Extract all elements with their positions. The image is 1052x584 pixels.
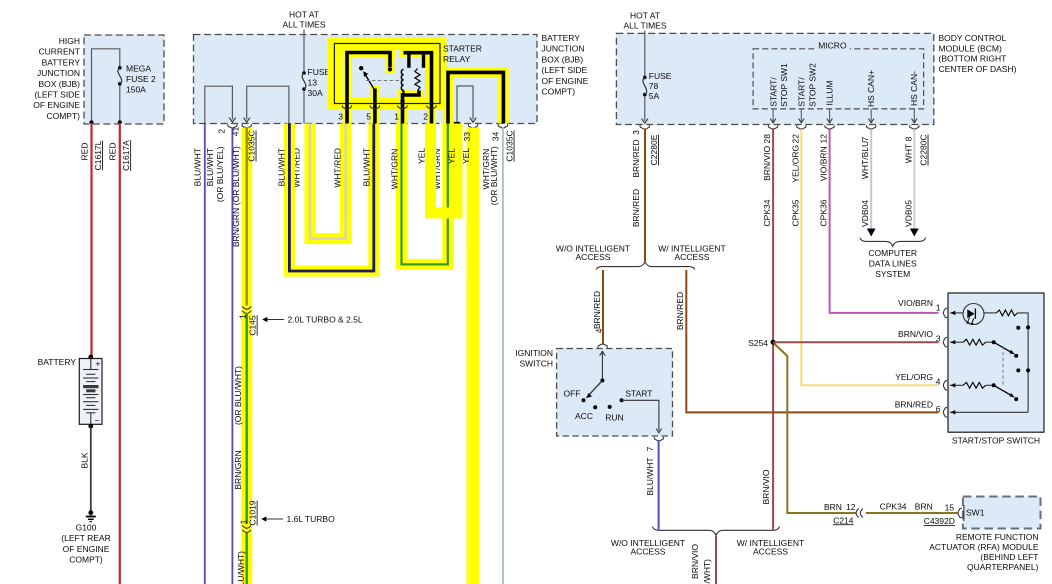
- svg-text:BLU/WHT: BLU/WHT: [645, 457, 655, 495]
- svg-text:3: 3: [936, 334, 941, 344]
- svg-text:MICRO: MICRO: [818, 40, 847, 50]
- ignition rotor arm: [588, 381, 603, 397]
- svg-text:OF ENGINE: OF ENGINE: [542, 76, 589, 86]
- svg-text:4: 4: [936, 377, 941, 387]
- svg-text:BATTERY: BATTERY: [42, 57, 81, 67]
- svg-text:C214: C214: [833, 515, 854, 525]
- svg-text:2.0L TURBO & 2.5L: 2.0L TURBO & 2.5L: [288, 314, 363, 324]
- svg-text:5: 5: [366, 112, 371, 122]
- svg-text:YEL: YEL: [461, 148, 471, 164]
- fuse 78 5A: [643, 76, 647, 80]
- switch resistor R2: [963, 339, 986, 345]
- svg-text:12: 12: [818, 134, 828, 144]
- wire BLU/WHT 7 ignition output: [658, 440, 660, 530]
- BJB internal loop from pin 41: [247, 86, 289, 123]
- ignition pivot dot: [600, 379, 604, 383]
- relay fixed contact dot: [388, 67, 392, 71]
- svg-text:3: 3: [338, 112, 343, 122]
- svg-text:(BEHIND LEFT: (BEHIND LEFT: [980, 552, 1038, 562]
- svg-text:BRN/RED: BRN/RED: [592, 291, 602, 329]
- wire BRN to RFA: [787, 355, 856, 513]
- svg-text:ACCESS: ACCESS: [631, 546, 666, 556]
- wire RED C1617L: [90, 123, 92, 356]
- svg-text:YEL/ORG: YEL/ORG: [895, 372, 933, 382]
- svg-text:HOT AT: HOT AT: [289, 10, 319, 20]
- wire BLU/WHT relay pin5 loop: [289, 124, 373, 272]
- svg-text:REMOTE FUNCTION: REMOTE FUNCTION: [956, 532, 1039, 542]
- BJB internal conductor to pin 34: [448, 72, 503, 123]
- svg-text:RELAY: RELAY: [443, 54, 471, 64]
- ignition OFF contact: [582, 398, 586, 402]
- svg-text:BLU/WHT: BLU/WHT: [361, 148, 371, 186]
- svg-text:12: 12: [846, 502, 856, 512]
- relay coil: [401, 69, 403, 90]
- wire BLK battery to ground: [90, 427, 92, 511]
- wire BRN/RED to ignition switch: [602, 270, 604, 345]
- svg-text:(LEFT REAR: (LEFT REAR: [61, 533, 110, 543]
- wire WHT/GRN (OR BLU/WHT) pin 34: [502, 128, 504, 584]
- svg-text:13: 13: [308, 77, 318, 87]
- svg-text:CENTER OF DASH): CENTER OF DASH): [939, 64, 1017, 74]
- ignition output cup: [654, 437, 663, 441]
- relay pin 5 conductor: [373, 89, 377, 125]
- start/stop switch outline: [948, 293, 1044, 432]
- starter relay highlight field: [328, 37, 447, 110]
- switch mechanical link: [1002, 346, 1004, 385]
- connector pin 33 cup: [468, 124, 477, 128]
- svg-text:BRN/VIO: BRN/VIO: [690, 544, 700, 579]
- micro pin stub x=773.1: [772, 109, 774, 122]
- svg-text:DATA LINES: DATA LINES: [869, 258, 917, 268]
- label battery junction box: [542, 33, 589, 97]
- svg-text:C2280C: C2280C: [919, 134, 929, 165]
- relay pin 3 conductor: [347, 53, 390, 125]
- BJB internal loop to pin 2: [205, 86, 233, 123]
- BJB internal bus wire: [92, 49, 120, 123]
- ignition START to output: [622, 400, 659, 430]
- svg-text:HOT AT: HOT AT: [630, 11, 660, 21]
- wire BLU/WHT (pin area left): [204, 124, 206, 584]
- svg-text:C1617A: C1617A: [121, 140, 131, 171]
- switch pin 4 cup: [943, 381, 947, 390]
- switch right rail: [1018, 313, 1029, 412]
- svg-text:33: 33: [462, 132, 472, 142]
- svg-text:BLK: BLK: [79, 452, 89, 468]
- label remote function actuator module: [929, 532, 1039, 572]
- svg-text:SYSTEM: SYSTEM: [875, 269, 910, 279]
- wire BRN/GRN pin 41: [245, 128, 247, 306]
- wire BRN/GRN mid: [245, 313, 247, 524]
- svg-text:BRN/VIO: BRN/VIO: [762, 146, 772, 181]
- connector C145: [242, 307, 251, 310]
- svg-text:S254: S254: [748, 338, 768, 348]
- wire BRN/GRN bottom: [245, 533, 247, 584]
- micro pin cup x=914.3: [910, 125, 919, 129]
- wire BRN/VIO from BCM pin 28: [772, 129, 774, 529]
- brace BRN/RED split: [596, 262, 695, 270]
- svg-text:22: 22: [790, 134, 800, 144]
- svg-text:(OR BLU/WHT): (OR BLU/WHT): [236, 551, 246, 584]
- svg-text:BLU/WHT: BLU/WHT: [205, 148, 215, 186]
- svg-text:BLU/WHT: BLU/WHT: [192, 148, 202, 186]
- high current battery junction box (BJB) outline: [84, 35, 164, 124]
- connector pin 2 cup: [228, 124, 237, 128]
- svg-text:BRN/VIO: BRN/VIO: [761, 469, 771, 504]
- switch contact pair 2: [1016, 368, 1020, 372]
- micro pin stub x=829.6: [829, 109, 831, 122]
- wire WHT/GRN relay pin1 loop: [402, 124, 448, 265]
- wire hot feed to fuse 78: [644, 31, 646, 78]
- wire WHT/RED fuse loop highlight: [310, 124, 346, 239]
- svg-text:30A: 30A: [308, 88, 323, 98]
- brace computer data lines: [860, 238, 926, 247]
- svg-text:SWITCH: SWITCH: [519, 359, 553, 369]
- svg-text:(OR BRN/WHT): (OR BRN/WHT): [702, 559, 712, 584]
- svg-text:5A: 5A: [649, 91, 660, 101]
- connector C214: [856, 509, 859, 518]
- starter relay box: [334, 44, 440, 104]
- relay mechanical link: [366, 80, 400, 82]
- wire BRN/VIO S254 to switch pin 3: [773, 341, 938, 343]
- ignition switch outline: [557, 349, 673, 437]
- junction dot left: [89, 120, 93, 124]
- svg-text:BRN/RED: BRN/RED: [631, 189, 641, 227]
- BCM pin 3 cup: [640, 125, 649, 129]
- svg-text:BRN/GRN: BRN/GRN: [231, 208, 241, 247]
- wire hot feed to fuse 13: [303, 30, 305, 74]
- svg-text:C1035C: C1035C: [247, 130, 257, 161]
- svg-text:BRN/RED: BRN/RED: [675, 292, 685, 330]
- svg-text:ACTUATOR (RFA) MODULE: ACTUATOR (RFA) MODULE: [929, 542, 1039, 552]
- relay pin cups: [342, 105, 351, 109]
- svg-text:6: 6: [936, 404, 941, 414]
- svg-text:C1019: C1019: [248, 500, 258, 525]
- svg-text:78: 78: [649, 81, 659, 91]
- micro pin cup x=829.6: [825, 125, 834, 129]
- wire WHT/BLU from BCM pin 7: [870, 129, 872, 231]
- svg-text:OF ENGINE: OF ENGINE: [33, 100, 80, 110]
- switch resistor R3: [963, 382, 986, 388]
- wire WHT from BCM pin 8: [913, 129, 915, 231]
- svg-text:7: 7: [645, 446, 655, 451]
- svg-text:ILLUM: ILLUM: [825, 80, 835, 105]
- switch pin 3 cup: [943, 338, 947, 347]
- ignition ACC contact: [593, 405, 597, 409]
- svg-text:MEGA: MEGA: [126, 63, 151, 73]
- switch resistor R1: [996, 310, 1017, 316]
- switch pin 1 cup: [943, 308, 947, 317]
- connector pin 34 cup: [498, 124, 507, 128]
- svg-text:BOX (BJB): BOX (BJB): [542, 54, 584, 64]
- svg-text:CPK36: CPK36: [818, 199, 828, 226]
- micro pin cup x=801.3: [797, 125, 806, 129]
- svg-text:7: 7: [860, 136, 870, 141]
- svg-text:C1035C: C1035C: [505, 130, 515, 161]
- wire BRN/RED from BCM pin 3: [644, 129, 646, 262]
- wire YEL pin 33: [467, 128, 480, 584]
- micro pin cup x=871.2: [867, 125, 876, 129]
- svg-text:QUARTERPANEL): QUARTERPANEL): [967, 562, 1039, 572]
- ground G100: [88, 510, 93, 515]
- svg-text:JUNCTION: JUNCTION: [37, 68, 80, 78]
- svg-text:RUN: RUN: [605, 413, 623, 423]
- svg-text:HS CAN+: HS CAN+: [866, 70, 876, 107]
- svg-text:ACCESS: ACCESS: [753, 546, 788, 556]
- svg-text:CURRENT: CURRENT: [38, 47, 80, 57]
- label micro: [815, 41, 850, 50]
- relay pivot dot: [359, 66, 363, 70]
- wire BLU/WHT relay pin5 loop highlight: [289, 124, 373, 272]
- ignition START contact: [620, 398, 624, 402]
- svg-text:IGNITION: IGNITION: [515, 348, 553, 358]
- connector C1019: [242, 526, 251, 529]
- starter relay internal highlight: [343, 43, 352, 124]
- battery: [79, 359, 102, 425]
- svg-text:41: 41: [231, 127, 241, 137]
- mega fuse 2 150A: [118, 66, 122, 70]
- wire YEL/ORG from BCM pin 22: [801, 129, 938, 385]
- wire WHT/RED fuse loop: [310, 124, 346, 239]
- svg-text:ACCESS: ACCESS: [576, 252, 611, 262]
- svg-text:ALL TIMES: ALL TIMES: [283, 20, 326, 30]
- svg-text:COMPT): COMPT): [542, 87, 576, 97]
- wire BRN/GRN pin 41 highlight: [241, 128, 252, 584]
- BJB internal loop to pin 33: [457, 86, 473, 124]
- svg-text:WHT/BLU: WHT/BLU: [860, 141, 870, 179]
- relay coil resistor: [415, 69, 420, 91]
- svg-text:1: 1: [394, 112, 399, 122]
- callout 1.6L turbo: [261, 516, 266, 521]
- svg-text:BRN: BRN: [824, 502, 842, 512]
- svg-text:+: +: [95, 359, 100, 369]
- svg-text:VDB05: VDB05: [903, 200, 913, 227]
- wire VIO/BRN from BCM pin 12: [830, 129, 939, 313]
- svg-text:ACC: ACC: [575, 411, 593, 421]
- svg-text:C145: C145: [248, 315, 258, 336]
- svg-text:COMPT): COMPT): [69, 555, 103, 565]
- svg-text:JUNCTION: JUNCTION: [542, 44, 585, 54]
- micro pin stub x=871.2: [870, 109, 872, 122]
- body control module (BCM) outline: [616, 33, 933, 124]
- wire YEL relay pin2 loop highlight: [431, 124, 458, 214]
- svg-text:ALL TIMES: ALL TIMES: [624, 21, 667, 31]
- svg-text:MODULE (BCM): MODULE (BCM): [939, 43, 1002, 53]
- RFA pin cup: [958, 508, 962, 517]
- svg-text:HIGH: HIGH: [59, 36, 80, 46]
- svg-text:CPK34: CPK34: [880, 501, 907, 511]
- relay switch arm: [364, 72, 375, 90]
- svg-text:STOP SW2: STOP SW2: [807, 63, 817, 107]
- svg-text:YEL: YEL: [446, 148, 456, 164]
- svg-text:OF ENGINE: OF ENGINE: [63, 544, 110, 554]
- svg-text:(OR BLU/YEL): (OR BLU/YEL): [215, 146, 225, 202]
- svg-text:BRN/VIO: BRN/VIO: [898, 329, 933, 339]
- wire YEL relay pin2 loop: [431, 124, 458, 214]
- svg-text:BATTERY: BATTERY: [38, 357, 77, 367]
- callout 2.0L turbo: [262, 317, 267, 322]
- svg-text:BODY CONTROL: BODY CONTROL: [939, 33, 1007, 43]
- svg-text:VIO/BRN: VIO/BRN: [898, 298, 933, 308]
- svg-text:RED: RED: [108, 143, 118, 161]
- svg-text:(LEFT SIDE: (LEFT SIDE: [34, 90, 80, 100]
- wire RED C1617A: [119, 123, 121, 584]
- svg-text:CPK34: CPK34: [762, 199, 772, 226]
- switch pin 1 line: [950, 312, 963, 314]
- switch contact pair 1: [1016, 326, 1020, 330]
- svg-text:−: −: [95, 415, 100, 425]
- svg-text:STOP SW1: STOP SW1: [779, 63, 789, 107]
- svg-text:C1617L: C1617L: [93, 140, 103, 170]
- svg-text:VIO/BRN: VIO/BRN: [818, 146, 828, 181]
- micro pin cup x=773.1: [768, 125, 777, 129]
- svg-text:COMPT): COMPT): [46, 111, 80, 121]
- svg-text:15: 15: [945, 502, 955, 512]
- micro pin stub x=914.3: [913, 109, 915, 122]
- svg-text:COMPUTER: COMPUTER: [868, 248, 917, 258]
- label body control module: [939, 33, 1017, 74]
- wire BRN/VIO (OR BRN/WHT) output: [715, 536, 717, 584]
- switch pin 3 line: [950, 341, 963, 343]
- svg-text:4: 4: [594, 328, 604, 333]
- fuse 13 30A: [302, 71, 306, 75]
- LED indicator: [963, 304, 984, 325]
- relay top rail to pin 2: [404, 53, 432, 124]
- svg-text:START: START: [625, 388, 652, 398]
- svg-text:WHT/RED: WHT/RED: [332, 148, 342, 188]
- svg-text:(OR BLU/WHT): (OR BLU/WHT): [231, 146, 241, 205]
- svg-text:YEL: YEL: [417, 148, 427, 164]
- relay bottom rail to pin 1: [403, 91, 420, 125]
- svg-text:WHT: WHT: [903, 144, 913, 163]
- svg-text:BOX (BJB): BOX (BJB): [38, 79, 80, 89]
- svg-text:STARTER: STARTER: [443, 43, 482, 53]
- BJB internal conductor to pin 34 highlight: [448, 72, 503, 123]
- svg-text:2: 2: [423, 112, 428, 122]
- ignition switch pin 4 cup: [598, 344, 607, 348]
- svg-text:(OR BLU/WHT): (OR BLU/WHT): [233, 366, 243, 425]
- svg-text:BRN/RED: BRN/RED: [631, 139, 641, 177]
- switch arm 2: [986, 384, 994, 386]
- svg-text:ACCESS: ACCESS: [675, 252, 710, 262]
- svg-text:1: 1: [936, 303, 941, 313]
- svg-text:(BOTTOM RIGHT: (BOTTOM RIGHT: [939, 54, 1007, 64]
- switch pin 6 cup: [943, 408, 947, 417]
- wire BRN/RED to start/stop switch: [686, 270, 938, 412]
- arrowhead WHT/BLU: [867, 229, 876, 237]
- switch pin 6 line: [950, 411, 1028, 413]
- svg-text:G100: G100: [76, 523, 97, 533]
- svg-text:34: 34: [490, 132, 500, 142]
- svg-text:C2280E: C2280E: [649, 134, 659, 165]
- svg-text:START/: START/: [797, 77, 807, 107]
- svg-text:(OR BLU/WHT): (OR BLU/WHT): [489, 146, 499, 205]
- splice S254: [771, 340, 776, 345]
- relay pin 1 junction dot: [400, 99, 404, 103]
- svg-text:HS CAN-: HS CAN-: [909, 71, 919, 106]
- svg-text:BATTERY: BATTERY: [542, 33, 581, 43]
- micro pin stub x=801.3: [800, 109, 802, 122]
- svg-text:BRN: BRN: [915, 501, 933, 511]
- switch arm 1: [986, 341, 994, 343]
- svg-text:BRN/GRN: BRN/GRN: [233, 450, 243, 489]
- svg-text:VDB04: VDB04: [860, 200, 870, 227]
- wire BRN S254 tap diagonal: [774, 344, 787, 356]
- svg-text:RED: RED: [80, 143, 90, 161]
- svg-text:START/STOP SWITCH: START/STOP SWITCH: [952, 435, 1040, 445]
- svg-text:CPK35: CPK35: [790, 199, 800, 226]
- brace BLU/WHT + BRN/VIO join: [652, 527, 779, 536]
- svg-text:WHT/GRN: WHT/GRN: [389, 149, 399, 190]
- svg-text:1.6L TURBO: 1.6L TURBO: [287, 514, 336, 524]
- arrowhead WHT: [910, 229, 919, 237]
- RFA module SW1 outline: [963, 497, 1041, 529]
- wire WHT/GRN relay pin1 loop highlight: [402, 124, 448, 265]
- svg-text:YEL/ORG: YEL/ORG: [790, 145, 800, 183]
- svg-text:2: 2: [216, 129, 226, 134]
- label high current BJB: [33, 36, 80, 121]
- svg-text:C4392D: C4392D: [924, 516, 955, 526]
- ignition switch feed arm: [601, 353, 603, 381]
- svg-text:(LEFT SIDE: (LEFT SIDE: [542, 65, 588, 75]
- svg-text:SW1: SW1: [966, 508, 985, 518]
- ignition RUN contact: [608, 405, 612, 409]
- svg-text:BLU/WHT: BLU/WHT: [276, 148, 286, 186]
- svg-text:28: 28: [762, 134, 772, 144]
- svg-text:OFF: OFF: [564, 388, 581, 398]
- svg-text:FUSE: FUSE: [308, 67, 331, 77]
- svg-text:START/: START/: [768, 77, 778, 107]
- switch pin 4 line: [950, 384, 963, 386]
- micro module outline: [753, 49, 924, 109]
- battery junction box (BJB) outline: [194, 35, 538, 124]
- svg-text:FUSE 2: FUSE 2: [126, 74, 156, 84]
- connector pin 41 cup: [242, 124, 251, 128]
- svg-text:8: 8: [903, 136, 913, 141]
- svg-text:3: 3: [631, 130, 641, 135]
- svg-text:FUSE: FUSE: [649, 71, 672, 81]
- junction dot right: [118, 120, 122, 124]
- wire BLU/WHT (OR BLU/YEL) pin 2: [231, 128, 233, 584]
- svg-text:BRN/RED: BRN/RED: [895, 399, 933, 409]
- svg-text:150A: 150A: [126, 84, 146, 94]
